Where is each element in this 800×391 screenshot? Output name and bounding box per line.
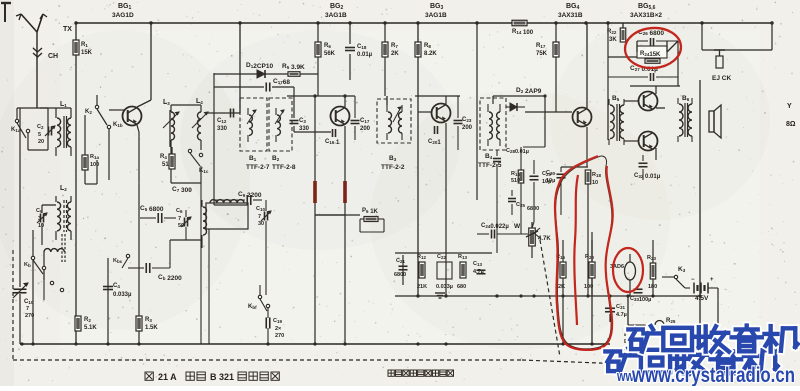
svg-text:2×: 2× [275, 326, 281, 332]
svg-text:21 A: 21 A [158, 372, 177, 382]
svg-text:Y: Y [787, 103, 792, 110]
svg-text:TX: TX [63, 26, 72, 33]
svg-text:75K: 75K [536, 51, 548, 57]
svg-text:C10: C10 [24, 299, 34, 305]
svg-text:3AG1D: 3AG1D [112, 12, 134, 19]
svg-text:BG4: BG4 [566, 3, 580, 11]
svg-text:3AG1B: 3AG1B [425, 12, 447, 19]
svg-text:R8: R8 [424, 43, 431, 49]
svg-text:270: 270 [275, 333, 284, 339]
svg-text:8.2K: 8.2K [424, 51, 437, 57]
svg-text:R17: R17 [536, 43, 546, 49]
svg-text:BG5,6: BG5,6 [638, 3, 656, 11]
svg-text:4.5V: 4.5V [695, 295, 709, 302]
svg-text:Kbf: Kbf [248, 304, 257, 310]
svg-text:R14 100: R14 100 [512, 29, 534, 36]
svg-text:8Ω: 8Ω [786, 121, 796, 128]
svg-text:R25: R25 [666, 318, 676, 324]
svg-text:+: + [710, 277, 714, 283]
svg-text:www.crystalradio.cn: www.crystalradio.cn [631, 363, 795, 386]
svg-text:BG3: BG3 [430, 3, 444, 11]
svg-text:3AX31B: 3AX31B [558, 12, 583, 19]
svg-text:K3: K3 [678, 266, 686, 273]
svg-text:BG2: BG2 [330, 3, 344, 11]
svg-text:7: 7 [26, 306, 29, 312]
svg-text:B 321: B 321 [210, 372, 234, 382]
svg-text:C19: C19 [273, 318, 282, 324]
svg-text:270: 270 [25, 313, 34, 319]
svg-text:3AG1B: 3AG1B [325, 12, 347, 19]
svg-text:−: − [691, 277, 695, 283]
svg-text:BG1: BG1 [118, 3, 132, 11]
